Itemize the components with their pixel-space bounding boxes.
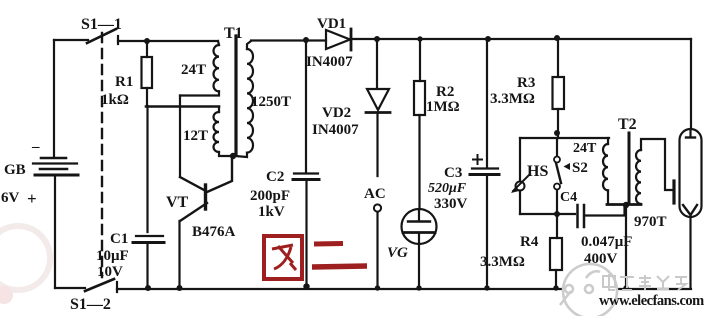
wire C1 to bottom rail bbox=[146, 245, 148, 288]
switch S1-1 blade bbox=[87, 29, 116, 43]
transformer T2 winding 970T bbox=[636, 150, 641, 204]
svg-text:R1: R1 bbox=[115, 74, 133, 90]
tube bottom electrode bbox=[683, 205, 697, 215]
speaker HS arrowhead bbox=[511, 186, 519, 193]
wire 24T top from rail bbox=[218, 41, 219, 45]
node AC terminal bbox=[374, 204, 381, 211]
faint left watermark ghost bbox=[0, 226, 50, 290]
svg-text:0.047μF: 0.047μF bbox=[581, 234, 632, 250]
wire node to 12T top bbox=[146, 105, 219, 108]
diode VD1 bbox=[326, 30, 350, 49]
wire 12T top hook bbox=[218, 107, 220, 112]
wire 1250T top hook bbox=[247, 41, 251, 49]
wire C3 drop bbox=[486, 39, 488, 168]
svg-text:330V: 330V bbox=[434, 196, 468, 212]
svg-text:VT: VT bbox=[166, 194, 189, 211]
transformer T1 winding 12T bbox=[214, 112, 219, 152]
wire base lead vertical bbox=[179, 96, 181, 178]
wire top-left rail bbox=[54, 39, 88, 41]
switch S2 arrow bbox=[564, 163, 571, 170]
wire R1 to base node bbox=[146, 88, 148, 106]
svg-text:24T: 24T bbox=[573, 141, 597, 156]
capacitor C4 bbox=[576, 205, 579, 227]
svg-text:AC: AC bbox=[364, 186, 386, 202]
transistor VT collector bbox=[207, 157, 232, 192]
wire tube bottom to rail bbox=[689, 215, 691, 288]
wire T2 primary top bbox=[607, 138, 609, 144]
lamp VG bbox=[402, 209, 437, 244]
wire T2 bottom bar bbox=[607, 203, 641, 206]
wire trigger common to bottom rail bbox=[625, 205, 627, 288]
resistor R3 bbox=[553, 77, 565, 109]
svg-text:10V: 10V bbox=[97, 264, 123, 280]
svg-text:+: + bbox=[27, 189, 37, 208]
svg-text:6V: 6V bbox=[1, 190, 20, 206]
svg-text:IN4007: IN4007 bbox=[312, 122, 359, 138]
transformer T2 core bbox=[628, 133, 631, 202]
svg-text:C3: C3 bbox=[444, 165, 462, 181]
wire VD2 drop bbox=[376, 39, 378, 88]
wire R1 feed bbox=[146, 41, 148, 57]
svg-text:R4: R4 bbox=[520, 234, 539, 250]
transistor VT emitter wire bbox=[178, 221, 180, 288]
wire VD2 to AC terminal bbox=[376, 114, 378, 176]
svg-text:970T: 970T bbox=[634, 214, 667, 230]
wire C2 drop bbox=[305, 40, 307, 173]
watermark logo bbox=[560, 264, 617, 316]
switch S1-2 blade bbox=[85, 279, 114, 291]
wire VG to bottom rail bbox=[418, 244, 420, 288]
svg-text:IN4007: IN4007 bbox=[306, 54, 353, 70]
wire R2 to VG bbox=[418, 115, 420, 209]
wire C3 to bottom rail bbox=[486, 176, 488, 288]
wire R4 to bottom rail bbox=[555, 270, 557, 288]
svg-text:–: – bbox=[31, 139, 40, 155]
wire AC to bottom rail bbox=[376, 212, 378, 288]
capacitor C1 bbox=[136, 235, 163, 237]
wire HS node horizontal bbox=[520, 137, 609, 139]
wire HS bottom loop bbox=[520, 213, 575, 215]
svg-text:HS: HS bbox=[527, 163, 548, 180]
battery GB plates bbox=[41, 157, 66, 160]
switch S1-2 contact bbox=[116, 282, 118, 292]
wire top rail right section bbox=[251, 39, 326, 41]
svg-text:T1: T1 bbox=[224, 25, 243, 42]
svg-text:1250T: 1250T bbox=[251, 94, 291, 110]
wire base lead diagonal bbox=[180, 177, 204, 190]
svg-text:520μF: 520μF bbox=[428, 181, 467, 196]
wire 970T top to trigger bbox=[641, 139, 672, 190]
red char tu box bbox=[264, 236, 302, 279]
switch S2 bbox=[554, 157, 560, 163]
svg-text:S2: S2 bbox=[572, 160, 588, 176]
transistor VT emitter bbox=[180, 203, 207, 221]
wire C4 to T2 loop bbox=[586, 205, 625, 216]
trigger plate bbox=[672, 181, 675, 203]
svg-text:R3: R3 bbox=[517, 75, 535, 91]
wire bottom rail left bbox=[55, 287, 85, 289]
svg-text:C1: C1 bbox=[110, 231, 128, 247]
svg-text:12T: 12T bbox=[183, 128, 208, 144]
svg-text:S1—1: S1—1 bbox=[81, 16, 122, 33]
capacitor C3 bbox=[472, 167, 498, 169]
transformer T1 core bbox=[234, 36, 237, 154]
diode VD2 bbox=[367, 89, 389, 110]
flash tube bbox=[680, 129, 702, 217]
wire 1250T bottom hook bbox=[235, 153, 247, 157]
wire node down to C1 bbox=[146, 106, 148, 232]
wire S2 to R4 bbox=[556, 190, 558, 238]
capacitor C2 bbox=[294, 172, 318, 174]
svg-text:S1—2: S1—2 bbox=[70, 296, 111, 313]
red char er strokes bbox=[314, 241, 343, 247]
svg-text:B476A: B476A bbox=[192, 224, 236, 240]
wire left rail down to battery bbox=[53, 40, 55, 157]
svg-text:VG: VG bbox=[387, 245, 408, 261]
tube top electrode bbox=[689, 129, 691, 137]
wire R2 drop bbox=[419, 39, 421, 81]
svg-text:C4: C4 bbox=[560, 190, 577, 205]
wire R3 drop bbox=[557, 38, 559, 77]
svg-text:R2: R2 bbox=[436, 84, 454, 100]
transistor VT base bar bbox=[204, 185, 207, 209]
svg-text:3.3MΩ: 3.3MΩ bbox=[480, 254, 525, 270]
transformer T1 winding 1250T bbox=[247, 49, 253, 153]
wire 12T bottom to junction bbox=[219, 152, 233, 156]
svg-text:1kΩ: 1kΩ bbox=[101, 92, 129, 108]
svg-text:10μF: 10μF bbox=[96, 248, 129, 264]
wire tube top feed bbox=[690, 39, 692, 129]
svg-text:GB: GB bbox=[4, 162, 26, 178]
red figure caption 图二 bbox=[264, 236, 367, 279]
transformer T2 winding 24T bbox=[603, 144, 608, 190]
wire R3 to HS node bbox=[557, 109, 559, 138]
svg-text:VD2: VD2 bbox=[322, 105, 351, 121]
svg-text:3.3MΩ: 3.3MΩ bbox=[490, 91, 535, 107]
svg-text:www.elecfans.com: www.elecfans.com bbox=[599, 293, 704, 309]
resistor R4 bbox=[550, 238, 562, 270]
speaker HS bbox=[516, 182, 525, 191]
svg-text:VD1: VD1 bbox=[317, 16, 346, 32]
svg-text:200pF: 200pF bbox=[250, 188, 290, 204]
svg-text:24T: 24T bbox=[181, 62, 206, 78]
wire HS branch down bbox=[519, 138, 521, 181]
transformer T1 winding 24T bbox=[214, 45, 219, 91]
svg-text:1kV: 1kV bbox=[258, 204, 285, 220]
svg-text:1MΩ: 1MΩ bbox=[426, 99, 460, 115]
switch S1-1 contact bbox=[117, 36, 119, 44]
wire VD1 to rail bbox=[352, 38, 691, 40]
wire C2 to bottom rail bbox=[305, 181, 307, 287]
wire T2 primary bottom bbox=[607, 190, 609, 204]
wire HS to bottom loop bbox=[519, 191, 521, 215]
svg-text:T2: T2 bbox=[618, 116, 637, 133]
wire battery to bottom rail bbox=[54, 176, 56, 288]
wire S2 top bbox=[556, 138, 558, 156]
watermark CJK text bbox=[603, 274, 687, 290]
wire top rail to T1 bbox=[118, 40, 218, 42]
resistor R1 bbox=[142, 57, 153, 88]
svg-text:C2: C2 bbox=[266, 169, 284, 185]
resistor R2 bbox=[414, 81, 425, 115]
wire 24T bottom to base lead bbox=[180, 91, 219, 95]
wire bottom rail bbox=[117, 288, 691, 290]
dashed gang link S1 bbox=[101, 33, 103, 277]
